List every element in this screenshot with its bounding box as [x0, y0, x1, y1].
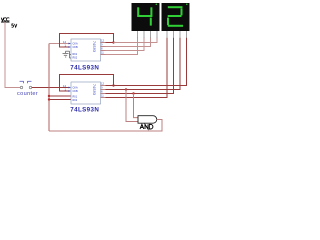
pin stubs U1 right	[101, 42, 106, 44]
svg-text:74LS93N: 74LS93N	[70, 106, 99, 113]
junction on U2 R02	[48, 98, 50, 100]
segment F top-left	[137, 7, 139, 15]
svg-text:CKB: CKB	[73, 46, 78, 49]
wire VCC to switch	[5, 22, 21, 88]
svg-text:74LS93N: 74LS93N	[70, 65, 99, 72]
segment C bottom-right	[150, 18, 152, 26]
segment B top-right	[150, 7, 152, 15]
IC U2 74LS93N	[63, 82, 106, 104]
display DS2 seven-segment	[162, 3, 190, 31]
wire switch to U2 CKA	[32, 87, 69, 89]
junction U2 QB to AND	[125, 88, 127, 90]
svg-text:74S93: 74S93	[92, 41, 96, 52]
segment E bottom-left	[167, 18, 169, 26]
display DS1 seven-segment	[132, 3, 160, 31]
display DS1 pins	[138, 31, 158, 38]
segment B top-right	[181, 8, 183, 15]
junction U2 QC to AND	[132, 92, 134, 94]
wire QC junction to AND upper input	[134, 94, 139, 118]
switch S1 counter	[20, 81, 32, 88]
wire U1 QB to display1 pinB	[106, 37, 151, 47]
wire net reset/carry vertical	[48, 44, 50, 132]
junction U2 QA	[112, 84, 114, 86]
IC U1 74LS93N	[63, 39, 106, 61]
wire AND output feedback to resets	[49, 120, 162, 132]
wire U1 QA to junction	[106, 42, 114, 44]
svg-text:counter: counter	[17, 91, 38, 97]
segment A top	[168, 6, 183, 8]
wire U2 QA feedback to CKB	[60, 75, 114, 92]
display DS2 pins	[167, 31, 187, 38]
ground U1 resets	[63, 51, 72, 58]
wire to U2 R01	[49, 95, 71, 97]
segment G middle	[137, 15, 152, 17]
wire U2 QC to display2 pinC	[106, 37, 174, 94]
wire U1 QD to display1 pinD	[106, 37, 138, 55]
wire to U2 R02	[49, 99, 71, 101]
gate AND	[138, 116, 157, 124]
label AND	[140, 124, 153, 129]
wire U2 QB to display2 pinB	[106, 37, 181, 90]
svg-text:R02: R02	[73, 57, 78, 60]
wire to U1 CKA	[49, 43, 69, 45]
wire QB junction to AND lower input	[126, 90, 138, 122]
svg-text:R02: R02	[73, 99, 78, 102]
segment G middle	[168, 15, 182, 17]
wire U1 QC to display1 pinC	[106, 37, 145, 51]
wire U2 QA to display2 pinA	[106, 37, 187, 86]
junction U1 QA	[112, 41, 114, 43]
pin arrows U2	[69, 87, 72, 89]
pin stubs U2 right	[101, 85, 106, 87]
pin arrows U1	[69, 43, 72, 45]
power VCC	[1, 18, 17, 28]
segment D bottom	[168, 25, 183, 27]
wire U2 QD to display2 pinD	[106, 37, 168, 98]
wire U1 QA to display1 pinA	[114, 37, 158, 43]
wire U1 QA feedback to CKB	[60, 34, 114, 48]
svg-text:74S93: 74S93	[92, 84, 96, 95]
svg-text:CKB: CKB	[73, 90, 78, 93]
junction on U2 R01	[48, 95, 50, 97]
